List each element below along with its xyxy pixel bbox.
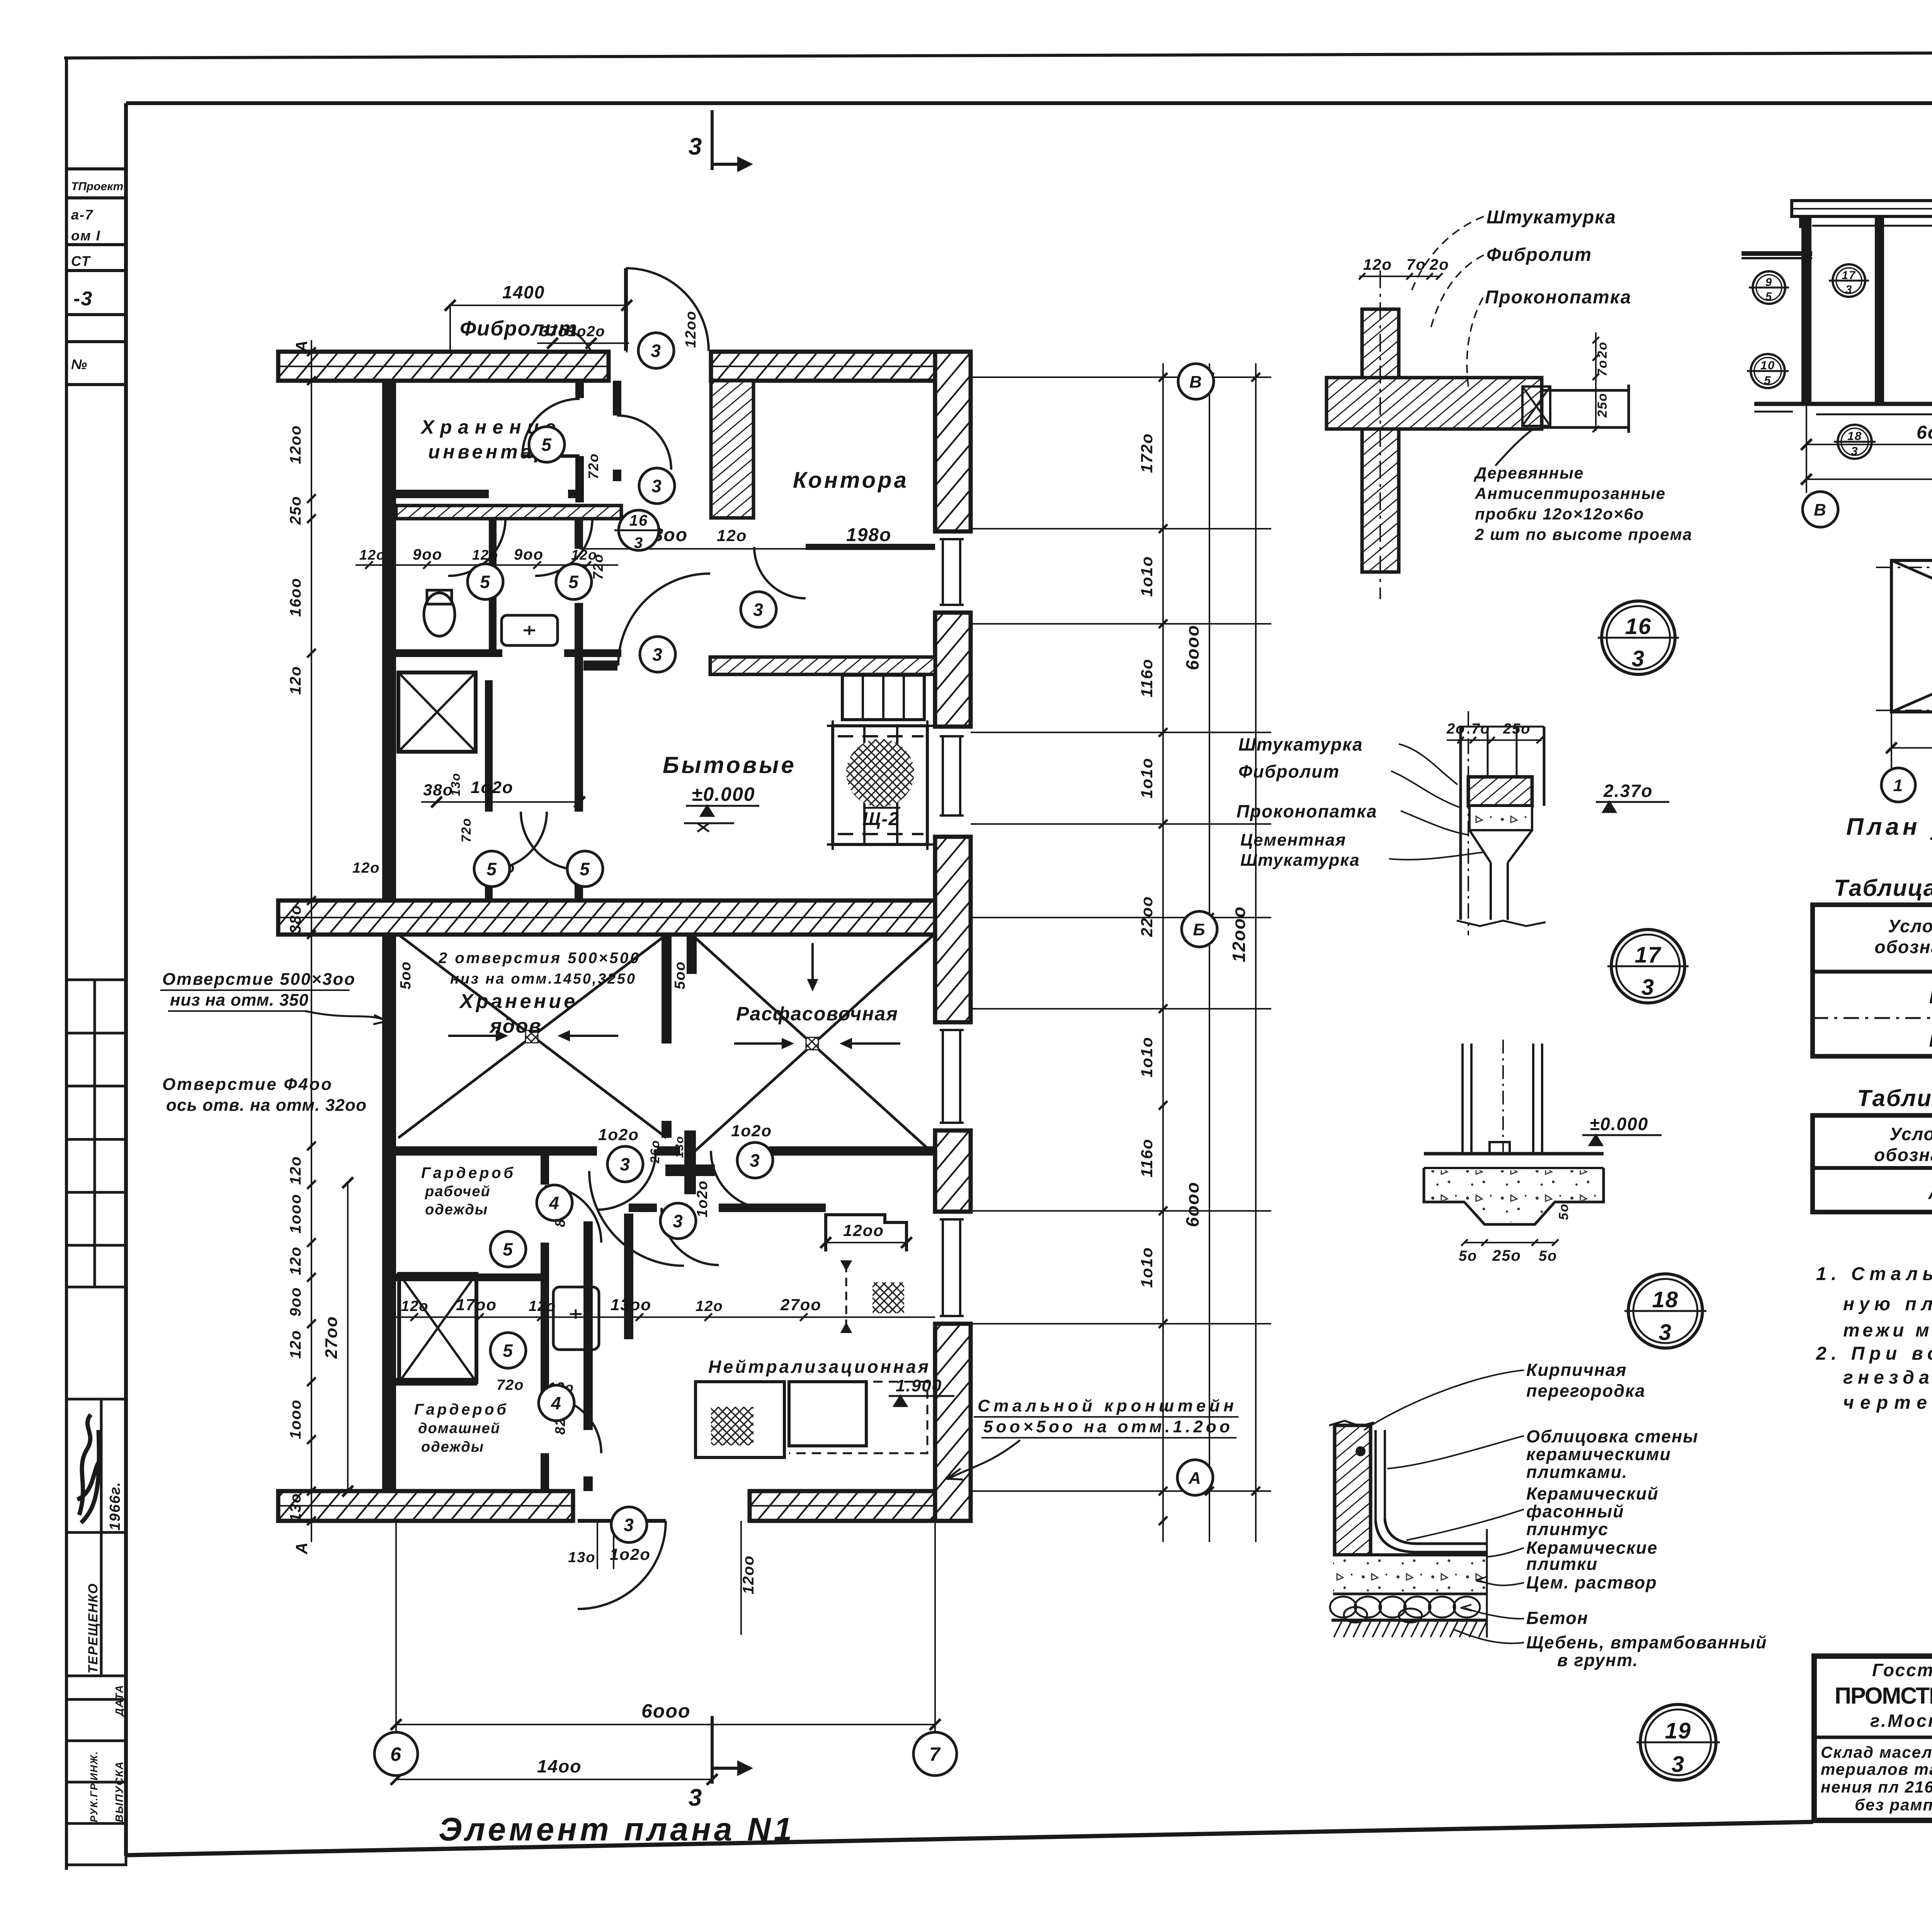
svg-text:4: 4 [549,1193,560,1213]
table1 border [1813,905,1932,1056]
detail16 axis dash-dot vertical [1379,271,1381,599]
WC bottom partition [396,649,502,657]
svg-text:Хранение: Хранение [459,990,576,1013]
corridor partition vertical 1 [583,1221,593,1430]
svg-text:ВЫПУСКА: ВЫПУСКА [113,1761,125,1822]
svg-text:Цементная: Цементная [1240,831,1346,850]
door bottom entrance arc [578,1521,666,1609]
inner dim 380 1020 row [421,801,580,803]
door WC left arc [448,519,505,576]
lower rooms top partition [396,1146,597,1156]
svg-text:тежи марки Км: тежи марки Км [1843,1320,1932,1341]
ventilation shaft upper with X [398,672,476,752]
detail18 columns above floor [1461,1044,1464,1154]
svg-text:3: 3 [753,600,764,620]
section detail circle 9-5 [1749,271,1789,304]
svg-text:ТЕРЕЩЕНКО: ТЕРЕЩЕНКО [86,1583,100,1674]
detail18 big circle 18-3 [1624,1274,1706,1348]
svg-text:25о: 25о [1595,393,1610,418]
svg-text:4: 4 [551,1393,562,1413]
window W4 [943,1219,960,1316]
svg-text:ПРОМСТРОЙПРОЕКТ: ПРОМСТРОЙПРОЕКТ [1835,1683,1932,1709]
door lower cell arc 1 [489,812,547,870]
svg-text:72о: 72о [459,817,474,843]
svg-text:3: 3 [1672,1752,1685,1777]
pit Sch-2 outer [833,726,927,844]
svg-text:плитки: плитки [1526,1554,1598,1574]
packing room X cross [692,935,934,1154]
svg-text:1ооо: 1ооо [287,1193,304,1234]
plan middle exterior wall band [278,901,971,935]
titleblock left cell rows [1814,1736,1932,1739]
svg-text:18: 18 [1847,429,1862,443]
plan top dims 370 1020 [537,342,629,344]
plan left exterior wall lower [382,935,396,1491]
svg-text:7о: 7о [1471,721,1490,737]
stamp signature squiggle [77,1415,100,1523]
svg-text:12оо: 12оо [740,1555,757,1594]
neutral room top wall hatched [710,657,935,674]
svg-text:3: 3 [689,133,702,160]
section axis circle V [1803,492,1838,527]
svg-text:12о: 12о [287,1330,304,1359]
svg-text:1о2о: 1о2о [694,1180,711,1217]
partition storage room right wall [575,381,584,398]
stamp column group 2 boxes [66,980,126,1287]
svg-text:пробки 12о×12о×6о: пробки 12о×12о×6о [1475,505,1644,523]
plan bottom exterior wall right segment [750,1491,971,1521]
svg-text:13оо: 13оо [611,1296,651,1314]
titleblock outer border [1814,1656,1932,1820]
svg-text:5: 5 [480,572,491,592]
pit crosshatch blob [846,739,914,807]
detail18 concrete band with dip [1424,1168,1604,1224]
svg-text:ядов: ядов [489,1015,542,1037]
svg-text:домашней: домашней [418,1420,500,1437]
svg-text:Отверстие 500×3оо: Отверстие 500×3оо [162,970,355,989]
partition lower cells [485,680,493,812]
svg-text:3: 3 [652,645,663,665]
svg-text:Антисептирозанные: Антисептирозанные [1475,484,1666,502]
svg-text:9оо: 9оо [413,546,442,563]
detail17 bottom squiggle [1457,921,1546,926]
svg-text:12о: 12о [287,1156,304,1185]
detail17 speckled block [1469,806,1532,830]
svg-text:обозначение: обозначение [1874,1145,1932,1165]
svg-text:ТПроект: ТПроект [71,180,123,193]
svg-text:Контора: Контора [793,468,909,493]
detail19 ground scribble hatch [1334,1622,1486,1637]
svg-text:Расфасовочная: Расфасовочная [736,1003,898,1025]
svg-text:Отверстие Ф4оо: Отверстие Ф4оо [162,1075,332,1094]
detail18 anchor block [1490,1142,1510,1154]
svg-text:Бытовые: Бытовые [663,752,796,778]
plan bottom axis drop lines [395,1521,397,1733]
svg-text:3: 3 [620,1154,631,1175]
svg-text:38о: 38о [287,905,304,934]
svg-text:плинтус: плинтус [1526,1519,1609,1539]
svg-text:Кирпичная: Кирпичная [1526,1360,1627,1380]
detail19 wall top break [1329,1421,1374,1426]
detail16 dim 120 70 20 [1359,276,1439,277]
svg-text:5: 5 [503,1239,514,1260]
svg-text:5оо: 5оо [398,961,414,989]
svg-text:Щ-2: Щ-2 [862,809,900,829]
svg-text:А: А [293,340,311,352]
svg-text:1966г.: 1966г. [107,1481,123,1531]
svg-text:в грунт.: в грунт. [1557,1650,1638,1670]
svg-text:6: 6 [390,1743,402,1765]
svg-text:2. При возведении кирпичны: 2. При возведении кирпичных стен предусм… [1816,1343,1932,1364]
svg-text:керамическими: керамическими [1526,1444,1671,1464]
svg-text:14оо: 14оо [537,1756,582,1776]
svg-text:В: В [1189,373,1202,392]
svg-text:3: 3 [1851,444,1858,458]
door neutral big arc [589,1171,684,1266]
detail19 right edge line [1486,1529,1488,1638]
svg-text:25о: 25о [287,496,304,525]
svg-text:7: 7 [929,1743,941,1765]
door wardrobe arc 1 [545,1186,601,1243]
neutralization room top partition [629,1204,657,1212]
svg-text:6ооо: 6ооо [1917,422,1932,443]
left chain dim 2700 [347,1183,349,1491]
detail16 horizontal wall band hatched [1327,378,1542,429]
svg-text:Штукатурка: Штукатурка [1240,851,1360,870]
bench equipment rect 1 [696,1382,784,1457]
plan bottom dim 6000 [396,1724,935,1725]
section left canopy [1742,251,1812,256]
svg-text:6ооо: 6ооо [1182,1182,1202,1227]
svg-text:Б: Б [1929,987,1932,1007]
detail mark 16-3 small in plan [614,510,663,552]
roofplan axis circle 1 [1881,768,1915,802]
door poison storage arc [597,1151,656,1210]
detail17 wall vertical lines [1459,727,1462,920]
inner dim row above WC [355,564,618,566]
lower dim row 120 1700 120 1300 120 2700 [396,1316,935,1318]
svg-text:низ на отм. 350: низ на отм. 350 [170,991,309,1010]
door lobby arc [662,1208,719,1265]
right chain 1 [1162,363,1164,1542]
svg-text:3: 3 [651,341,662,361]
svg-text:1о1о: 1о1о [1138,556,1156,597]
drawing frame bottom [126,1822,1813,1855]
svg-text:5о: 5о [1556,1203,1571,1220]
svg-text:1: 1 [1893,776,1903,795]
svg-text:2.37о: 2.37о [1603,781,1653,801]
svg-text:5: 5 [580,859,590,879]
svg-text:12о: 12о [401,1298,429,1314]
svg-text:Щебень, втрамбованный: Щебень, втрамбованный [1526,1633,1767,1652]
svg-text:18: 18 [1652,1287,1679,1312]
wardrobe partition horizontal 2 [396,1378,477,1386]
dim 2700 dashed vertical [845,1264,847,1330]
detail19 leader curves [1364,1370,1524,1643]
svg-text:без рампы: без рампы [1855,1796,1932,1814]
svg-text:12о: 12о [359,547,386,563]
svg-text:низ на отм.1450,3250: низ на отм.1450,3250 [450,971,636,987]
svg-text:3: 3 [689,1784,702,1811]
svg-text:17: 17 [1635,943,1662,968]
door corridor arc [617,415,671,470]
svg-text:3: 3 [750,1151,760,1171]
svg-text:Фибролит: Фибролит [1486,245,1592,265]
section flag 3 top [711,110,714,170]
detail19 big circle 19-3 [1636,1704,1720,1780]
svg-text:3: 3 [1659,1320,1672,1345]
drawing frame top [126,101,1932,105]
svg-text:ДАТА: ДАТА [113,1684,125,1717]
hatched partition strip above WC [396,506,621,519]
svg-text:Фибролит: Фибролит [1238,761,1340,781]
svg-text:5: 5 [541,435,552,455]
axis circle B right of plan [1182,911,1217,947]
detail16 wooden plug with X [1522,386,1550,426]
svg-text:Б: Б [1193,920,1206,939]
washbasin symbol [502,615,558,645]
svg-text:5: 5 [1765,290,1772,303]
poison storage / packing divider wall [662,935,672,1044]
svg-text:12о: 12о [287,666,304,695]
svg-text:12оо: 12оо [683,310,699,348]
svg-text:ось отв. на отм. 32оо: ось отв. на отм. 32оо [166,1096,367,1115]
poison storage slope arrows [448,1032,505,1040]
svg-text:3: 3 [673,1211,684,1231]
svg-text:Проконопатка: Проконопатка [1236,801,1378,821]
svg-text:1о1о: 1о1о [1138,1037,1156,1078]
detail19 tile lines on wall [1374,1430,1377,1521]
wardrobe partition horizontal 1 [396,1273,545,1281]
stamp column group 1 boxes [66,103,126,1821]
svg-text:27оо: 27оо [780,1296,821,1314]
svg-text:72о: 72о [590,553,606,580]
detail16 big circle 16-3 [1598,601,1679,674]
svg-text:10: 10 [1760,359,1775,372]
svg-text:рабочей: рабочей [425,1183,491,1200]
svg-text:17: 17 [1842,269,1856,282]
svg-text:1о1о: 1о1о [1138,1247,1156,1288]
svg-text:Штукатурка: Штукатурка [1486,207,1616,228]
right chain 2 [1209,363,1210,1542]
section roof slab [1792,201,1932,216]
svg-text:2о: 2о [1446,721,1465,737]
drawing frame left [124,103,128,1856]
svg-text:12о: 12о [287,1246,304,1275]
section detail circle 17-3 [1829,264,1869,297]
bench dashed edge [789,1382,927,1453]
door kontora room arc [754,547,806,598]
svg-text:5: 5 [1764,373,1771,387]
svg-text:ом I: ом I [71,228,101,243]
svg-text:5о: 5о [1539,1248,1557,1264]
svg-text:3: 3 [1632,646,1645,671]
plan top dim 1400 [450,305,627,306]
stamp column group 3 boxes [66,1399,126,1865]
svg-text:16: 16 [1625,614,1652,639]
svg-text:13о: 13о [568,1549,595,1566]
door wardrobe arc 2 [545,1397,601,1453]
svg-text:2о: 2о [1429,256,1449,273]
detail16 leaders dashed [1410,216,1484,386]
door top entrance arc [626,268,709,351]
toilet symbol [424,593,455,636]
svg-text:9оо: 9оо [287,1287,304,1316]
axis circle 7 [913,1732,957,1776]
door storage room arc [522,399,580,456]
svg-text:116о: 116о [1138,659,1156,698]
detail17 dim 20 70 250 [1447,739,1542,741]
long partition left of Bytovye upper [575,519,583,549]
detail16 vertical wall band hatched [1362,309,1399,572]
svg-text:1ооо: 1ооо [287,1399,304,1439]
svg-text:5оо: 5оо [672,961,688,989]
right chain 3 [1255,363,1257,1542]
svg-text:9оо: 9оо [514,546,544,563]
svg-text:План укладки утеплителя кро: План укладки утеплителя кровли [1846,814,1932,840]
section column 2 [1875,216,1884,404]
svg-text:25о: 25о [1503,721,1531,737]
svg-text:19: 19 [1665,1718,1692,1743]
roofplan dash-dot axes [1876,567,1932,568]
svg-text:2о: 2о [1595,341,1610,359]
svg-text:172о: 172о [1138,433,1156,473]
detail17 big circle 17-3 [1607,930,1689,1003]
svg-text:13о: 13о [449,773,463,796]
svg-text:№: № [71,356,88,372]
svg-text:12о: 12о [717,526,747,545]
plan right exterior wall segment 2 [935,613,971,727]
svg-text:одежды: одежды [421,1439,484,1455]
svg-text:А: А [1188,1469,1202,1488]
plan right exterior wall segment 4 [935,1130,971,1212]
svg-text:1о1о: 1о1о [1138,758,1156,798]
svg-text:1о2о: 1о2о [471,778,514,797]
detail19 wall hatched band [1335,1425,1371,1555]
svg-text:-3: -3 [73,288,93,310]
svg-text:В: В [1814,501,1827,519]
detail18 dims 50 250 50 [1464,1242,1555,1243]
window W2 [943,736,960,815]
svg-text:фасонный: фасонный [1526,1502,1624,1521]
detail17 hatched block [1468,777,1532,806]
svg-text:7о: 7о [1406,256,1426,273]
svg-text:Таблица толщин наружных: Таблица толщин наружных стен [1857,1085,1932,1111]
svg-text:3: 3 [651,476,662,496]
svg-text:198о: 198о [846,525,891,545]
svg-text:26о: 26о [648,1140,662,1164]
door big arc corridor to bytovye [618,574,710,666]
svg-text:А: А [1928,1183,1932,1203]
section roof end caps [1799,216,1802,228]
window W1 [943,539,960,605]
detail19 mortar band [1333,1556,1487,1593]
svg-text:27оо: 27оо [322,1316,341,1359]
svg-text:Облицовка стены: Облицовка стены [1526,1427,1699,1446]
svg-text:±0.000: ±0.000 [1590,1114,1648,1134]
svg-text:1о2о: 1о2о [598,1125,639,1144]
svg-text:СТ: СТ [71,253,91,269]
plan bottom dim 1400 [396,1779,712,1780]
section left wall [1801,216,1811,404]
svg-text:6ооо: 6ооо [1182,625,1202,670]
svg-text:3: 3 [634,535,643,552]
plan right exterior wall segment 5 [935,1324,971,1521]
packing room slope arrows [734,1040,791,1047]
ventilation shaft lower with X [399,1274,476,1382]
detail18 floor slab lines [1424,1152,1604,1156]
roofplan dim line bottom [1891,747,1932,749]
svg-text:12оо: 12оо [287,425,304,464]
circled numbers in plan [638,333,674,368]
table2 border [1813,1115,1932,1212]
svg-text:17оо: 17оо [456,1296,497,1314]
svg-text:1о2о: 1о2о [610,1545,651,1563]
svg-text:Керамический: Керамический [1526,1484,1659,1503]
svg-text:Нейтрализационная: Нейтрализационная [708,1357,929,1377]
roofplan rectangle [1891,560,1932,712]
svg-text:12оо: 12оо [843,1221,884,1239]
svg-text:РУК.ГР.ИНЖ.: РУК.ГР.ИНЖ. [88,1751,100,1822]
svg-text:16оо: 16оо [287,577,304,616]
plan top exterior wall left segment [278,352,609,381]
svg-text:Таблица толщин утеплителя: Таблица толщин утеплителя кровли [1834,875,1932,901]
svg-text:Госстрой СССР: Госстрой СССР [1872,1660,1932,1680]
section bottom dim 12000 [1806,478,1932,480]
axis connector lines right of plan [971,376,1271,378]
svg-text:3: 3 [1641,975,1655,1000]
detail19 gravel row [1330,1597,1480,1622]
detail16 door frame lines [1542,389,1629,392]
svg-text:116о: 116о [1138,1139,1156,1178]
detail17 leader squiggles [1389,744,1484,860]
svg-text:Проконопатка: Проконопатка [1485,287,1631,308]
svg-text:12о: 12о [529,1298,556,1314]
washbasin lower [553,1287,599,1350]
section floor line [1754,402,1932,406]
pit dashed edges [838,735,923,737]
svg-text:25о: 25о [1492,1247,1521,1264]
svg-text:нения пл 216м²: нения пл 216м² [1821,1778,1932,1796]
dim 1200 cupboard [826,1242,906,1243]
svg-text:12ооо: 12ооо [1229,906,1249,962]
plan top exterior wall right segment [711,352,971,381]
svg-text:г.Москва-1966г.: г.Москва-1966г. [1870,1711,1932,1731]
detail19 floor top line [1333,1553,1487,1556]
door packing room arc [711,1151,769,1209]
svg-text:Элемент плана N1: Элемент плана N1 [439,1811,795,1847]
axis circle 6 [374,1732,418,1776]
svg-text:Бетон: Бетон [1526,1608,1588,1628]
svg-text:72о: 72о [497,1377,524,1393]
svg-text:перегородка: перегородка [1526,1381,1646,1401]
left dimension chain [311,340,312,1542]
svg-text:5оо×5оо на отм.1.2оо: 5оо×5оо на отм.1.2оо [983,1417,1231,1436]
corridor partition near entrance [613,381,621,415]
svg-text:12о: 12о [1363,256,1392,273]
cupboard top right of neutralization room [826,1215,906,1251]
corridor stub wall [583,661,617,671]
svg-text:5: 5 [486,859,497,879]
svg-text:5о: 5о [1459,1248,1477,1264]
svg-text:1.900: 1.900 [896,1376,942,1395]
bench equipment rect 2 [789,1382,866,1446]
svg-text:13о: 13о [673,1136,686,1158]
kontora bottom partition [806,544,935,550]
svg-text:13о: 13о [287,1493,304,1522]
plan left exterior wall upper [382,381,396,901]
bench crosshatch patch [711,1407,753,1445]
